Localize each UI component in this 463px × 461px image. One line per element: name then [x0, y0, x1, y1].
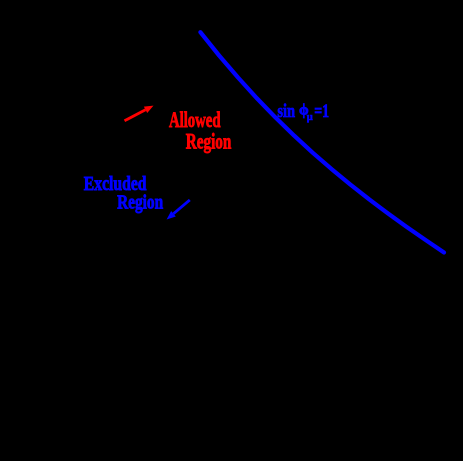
- svg-text:μ: μ: [307, 112, 313, 123]
- svg-text:Region: Region: [117, 192, 163, 214]
- svg-text:Region: Region: [186, 128, 232, 153]
- svg-text:=1: =1: [314, 101, 329, 122]
- svg-text:sin: sin: [277, 101, 295, 122]
